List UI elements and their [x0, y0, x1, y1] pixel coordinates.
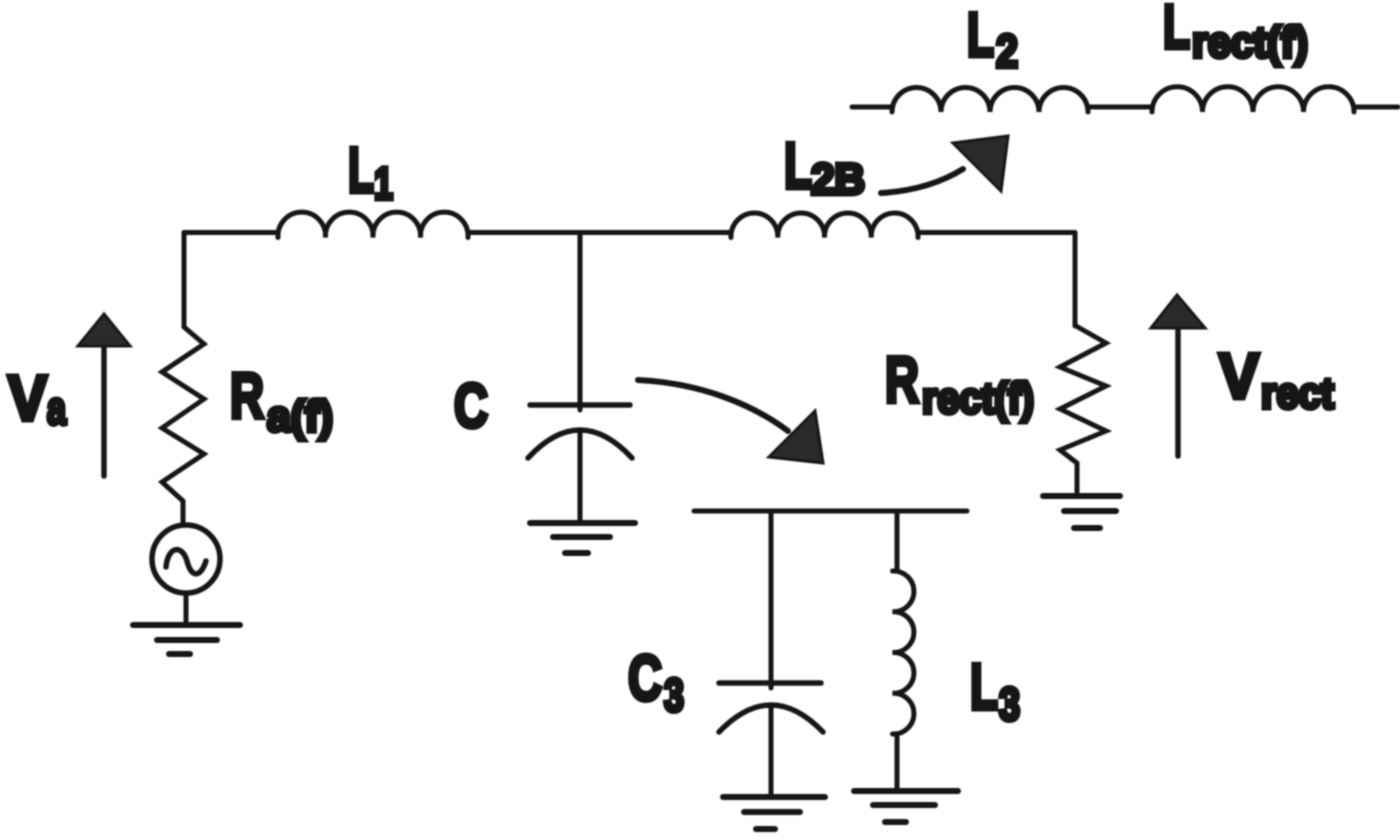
ground under C — [530, 520, 635, 526]
wire — [181, 501, 186, 524]
ground under L3 — [854, 788, 958, 794]
svg-text:rect(f): rect(f) — [1192, 18, 1308, 67]
wire right vertical — [1073, 233, 1078, 327]
svg-text:L: L — [348, 134, 374, 206]
svg-text:C: C — [628, 642, 662, 714]
svg-text:2B: 2B — [811, 155, 865, 204]
source V1 circle — [152, 525, 220, 593]
svg-text:3: 3 — [664, 669, 684, 721]
svg-text:rect(f): rect(f) — [922, 374, 1034, 423]
arrow from C to bottom network — [638, 380, 788, 431]
svg-text:a(f): a(f) — [267, 392, 333, 441]
wire top right — [918, 230, 1075, 235]
inductor L2B — [731, 213, 918, 237]
wire — [1354, 105, 1398, 110]
capacitor C3 top plate — [719, 680, 821, 686]
wire — [1088, 105, 1152, 110]
wire below L3 — [895, 734, 900, 791]
capacitor C3 bottom plate arc — [719, 705, 823, 732]
svg-text:V: V — [1219, 340, 1259, 412]
capacitor C bottom plate arc — [528, 430, 632, 458]
capacitor C wire — [578, 233, 583, 411]
ground under C3 — [723, 794, 825, 800]
svg-text:L: L — [1163, 0, 1190, 62]
wire bottom network top line — [694, 509, 967, 514]
wire left vertical — [182, 233, 187, 328]
capacitor C top plate — [530, 402, 630, 408]
arrow Va — [101, 348, 107, 476]
wire — [1075, 463, 1080, 492]
source sine — [166, 550, 206, 574]
svg-text:3: 3 — [999, 678, 1020, 730]
svg-text:L: L — [784, 129, 812, 202]
svg-text:L: L — [967, 1, 994, 70]
wire middle top — [468, 230, 731, 235]
inductor L1 — [278, 212, 468, 237]
arrow from L2B to L2 — [881, 169, 963, 193]
svg-text:a: a — [47, 382, 66, 434]
inductor Lrect(f) — [1152, 87, 1354, 112]
wire — [852, 105, 892, 110]
wire below C3 — [769, 706, 774, 797]
wire — [184, 594, 189, 625]
capacitor C3 wire — [769, 511, 774, 688]
svg-text:C: C — [454, 372, 488, 441]
wire top left — [184, 230, 278, 235]
ground under Rrect — [1043, 493, 1120, 499]
svg-text:1: 1 — [374, 158, 393, 209]
inductor L2 — [892, 87, 1088, 112]
svg-text:R: R — [885, 343, 919, 416]
inductor L3 — [893, 571, 914, 734]
ground under source — [133, 622, 240, 628]
resistor Rrect(f) — [1060, 326, 1106, 463]
wire below C — [578, 430, 583, 523]
arrow Vrect — [1175, 328, 1181, 456]
svg-text:L: L — [970, 650, 998, 723]
svg-text:V: V — [8, 362, 47, 434]
resistor Ra(f) — [162, 327, 204, 501]
svg-text:rect: rect — [1261, 369, 1334, 418]
inductor L3 wire top — [895, 511, 900, 571]
svg-text:R: R — [230, 360, 264, 432]
svg-text:2: 2 — [996, 25, 1018, 77]
